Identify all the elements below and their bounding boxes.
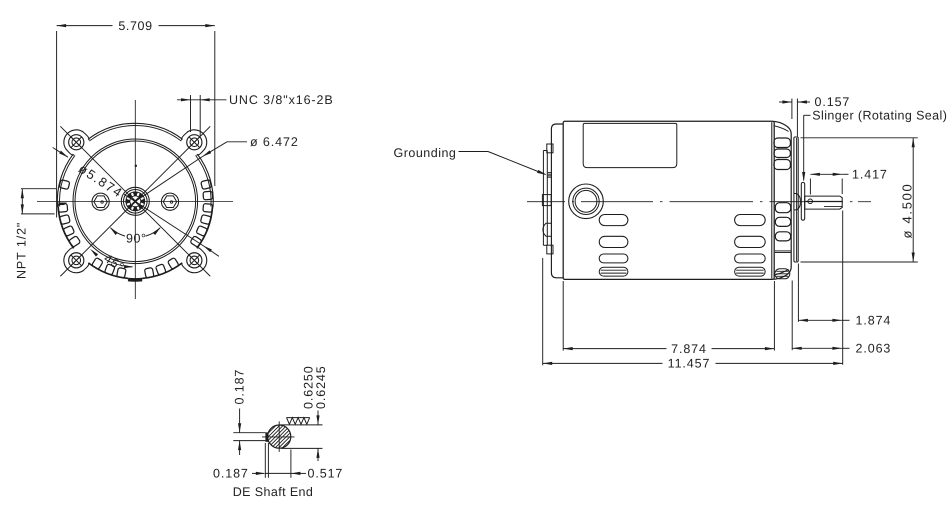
svg-text:5.709: 5.709 — [118, 19, 152, 33]
svg-text:90°: 90° — [126, 232, 147, 246]
svg-text:1.417: 1.417 — [852, 168, 888, 182]
svg-text:0.157: 0.157 — [815, 95, 851, 109]
svg-text:ø 4.500: ø 4.500 — [900, 183, 915, 239]
svg-text:ø 6.472: ø 6.472 — [250, 135, 299, 149]
svg-text:DE Shaft End: DE Shaft End — [233, 485, 314, 499]
svg-text:0.187: 0.187 — [233, 369, 247, 405]
svg-text:NPT 1/2": NPT 1/2" — [15, 222, 29, 279]
svg-text:0.6245: 0.6245 — [314, 365, 328, 409]
svg-text:0.517: 0.517 — [308, 467, 344, 481]
svg-text:UNC 3/8"x16-2B: UNC 3/8"x16-2B — [229, 93, 334, 107]
svg-text:1.874: 1.874 — [856, 314, 892, 328]
svg-text:0.187: 0.187 — [213, 467, 249, 481]
svg-text:11.457: 11.457 — [668, 357, 711, 371]
svg-text:2.063: 2.063 — [856, 342, 892, 356]
svg-text:7.874: 7.874 — [671, 342, 707, 356]
svg-text:Slinger (Rotating Seal): Slinger (Rotating Seal) — [812, 109, 947, 123]
svg-text:Grounding: Grounding — [394, 146, 457, 160]
